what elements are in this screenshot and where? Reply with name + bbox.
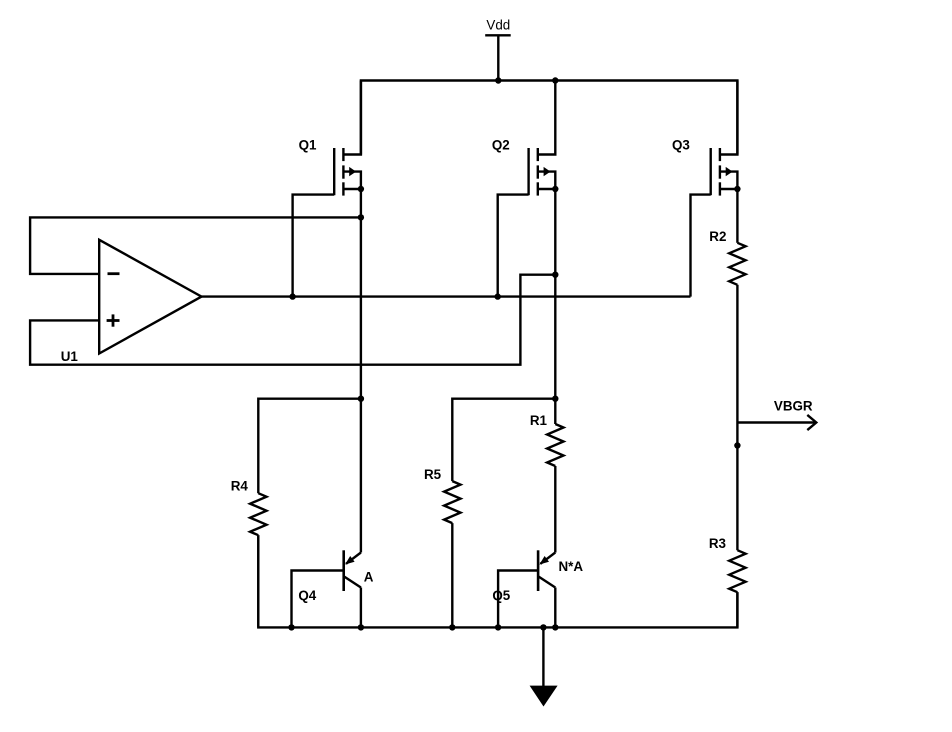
node Q4 base rail junction (288, 624, 294, 630)
svg-text:Q2: Q2 (492, 138, 510, 153)
wire top supply rail (361, 81, 738, 155)
node Q2 drain / R5 branch junction (552, 396, 558, 402)
node ground stem rail junction (540, 624, 546, 630)
wire Q1 gate to opamp output bus (293, 195, 335, 297)
wire Q2 drain down through R1 top (554, 189, 556, 424)
transistor Q1 (PMOS) (299, 81, 361, 196)
node Q2 source rail junction (552, 77, 558, 83)
svg-text:Vdd: Vdd (486, 17, 510, 32)
svg-text:R2: R2 (709, 229, 726, 244)
node Q2 drain / plus sense junction (552, 272, 558, 278)
wire Q1 drain down to Q4 emitter (360, 189, 362, 553)
resistor R5 (424, 467, 461, 523)
svg-text:Q5: Q5 (492, 588, 510, 603)
op-amp U1 (61, 240, 202, 364)
node Q4 collector rail junction (358, 624, 364, 630)
wire R3 bottom lead (736, 592, 738, 627)
svg-text:R4: R4 (231, 478, 249, 493)
node Q3 drain dot (734, 186, 740, 192)
node Q1 drain dot (358, 186, 364, 192)
node Q5 collector rail junction (552, 624, 558, 630)
wire R5 bottom lead (451, 523, 453, 627)
wire bottom ground rail (258, 535, 737, 627)
transistor Q2 (PMOS) (492, 81, 555, 196)
transistor Q5 (PNP, area N*A) (492, 550, 583, 627)
node Q1 drain / R4 branch junction (358, 396, 364, 402)
svg-text:VBGR: VBGR (774, 398, 813, 413)
ground (530, 627, 558, 706)
wire R2 bottom to R3 top (736, 285, 738, 550)
transistor Q3 (PMOS) (672, 81, 737, 196)
svg-text:U1: U1 (61, 349, 79, 364)
transistor Q4 (PNP, area A) (298, 550, 373, 627)
node output to Q2 gate (495, 293, 501, 299)
resistor R4 (231, 478, 267, 535)
resistor R1 (530, 413, 564, 466)
svg-text:N*A: N*A (559, 559, 584, 574)
svg-text:R5: R5 (424, 467, 442, 482)
svg-text:R1: R1 (530, 413, 548, 428)
node Q2 drain dot (552, 186, 558, 192)
svg-text:A: A (364, 570, 374, 585)
svg-text:Q4: Q4 (298, 588, 316, 603)
node R5 rail junction (449, 624, 455, 630)
svg-text:Q1: Q1 (299, 138, 317, 153)
resistor R3 (709, 536, 746, 592)
wire R4 branch from Q1 drain (258, 399, 361, 494)
VBGR output arrow (737, 398, 816, 430)
node Q1 drain / inverting feedback junction (358, 214, 364, 220)
wire Q5 base to ground rail (498, 571, 538, 628)
wire Q3 gate to opamp output bus (691, 195, 711, 297)
wire opamp output bus (202, 295, 691, 297)
node output to Q1 gate (289, 293, 295, 299)
wire Q4 base to ground rail (292, 571, 344, 628)
resistor R2 (709, 189, 745, 285)
node Q5 base rail junction (495, 624, 501, 630)
svg-text:R3: R3 (709, 536, 726, 551)
wire R5 branch from Q2 drain (452, 399, 555, 481)
wire R1 bottom to Q5 emitter (554, 466, 556, 553)
power Vdd (485, 17, 511, 80)
svg-text:Q3: Q3 (672, 138, 690, 153)
wire Q2 gate to opamp output bus (498, 195, 529, 297)
wire inverting input lead (30, 217, 361, 274)
node VBGR junction (734, 442, 740, 448)
wire non-inverting sense from Q2 drain (30, 275, 555, 365)
wire R4 bottom lead (257, 535, 259, 627)
node Vdd rail junction (495, 77, 501, 83)
